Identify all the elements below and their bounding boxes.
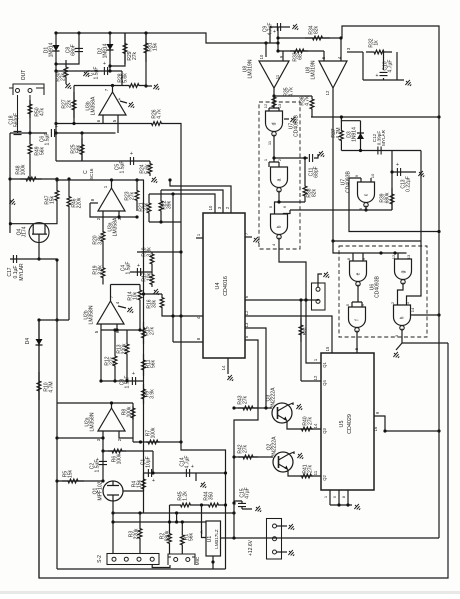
wire U2b out row [111,284,141,286]
wire R6 row [103,450,153,452]
svg-text:LM317LZ: LM317LZ [214,529,219,549]
wire R3 top [139,513,141,524]
junction [77,31,80,34]
capacitor C15 [238,503,246,506]
resistor R33 [290,49,308,53]
junction [168,520,171,523]
dashed box U6 [339,246,427,337]
wire C15 leads [234,501,252,509]
wire to bus x57 [39,258,57,260]
svg-text:13: 13 [277,103,282,108]
resistor R51 [299,318,303,342]
connector S1 [312,283,326,310]
svg-text:12: 12 [313,375,318,380]
capacitor C12 [378,147,381,155]
svg-text:15k: 15k [153,42,159,51]
svg-text:39k: 39k [167,200,173,209]
resistor R48 [20,177,42,181]
wire U2b pin stubs [101,324,117,330]
junction [390,170,393,173]
resistor R46 [67,191,71,212]
svg-text:+: + [191,464,194,470]
svg-text:1N914: 1N914 [352,127,358,142]
wire C2 stem [102,451,104,481]
resistor R14 [138,287,142,303]
junction [339,36,342,39]
svg-text:h: h [400,316,406,319]
wire U3a out row [57,179,144,181]
wire U3a bottom row [103,216,137,218]
wire R28 lead [121,71,123,86]
wire R49 lead [29,133,31,138]
wire C14 row [144,472,226,474]
svg-text:LM358A: LM358A [91,96,97,115]
junction [331,239,334,242]
wire R14 down [139,303,141,330]
capacitor C9 [277,23,280,31]
junction [55,178,58,181]
junction [115,328,118,331]
capacitor C5 [130,157,133,165]
wire U6 input bus [333,241,407,253]
junction [393,251,396,254]
wire U7a to U7b pin5 [275,191,280,214]
junction [276,49,279,52]
svg-text:15: 15 [325,346,330,351]
ground row71 [82,69,91,78]
IC U4 CD4016 [203,213,245,358]
capacitor C11 [309,154,312,162]
svg-text:LM358N: LM358N [89,305,95,324]
resistor R4 [142,477,146,491]
wire U8b pin3 [347,51,363,53]
wire R16 loop bottom [162,311,203,316]
resistor R20 [101,225,105,248]
op-amp U2a [98,408,125,431]
resistor R5 [62,479,84,483]
wire R33 row [278,50,324,52]
resistor R16 [160,294,164,311]
wire U8b pin5 [323,51,325,61]
junction [139,440,142,443]
svg-text:27k: 27k [144,202,150,211]
svg-text:1.5µF: 1.5µF [95,460,101,473]
wire U2a pin stubs [103,431,133,451]
junction [151,471,154,474]
svg-text:Q4: Q4 [322,380,327,386]
wire R25 link [81,133,83,161]
resistor R1 [180,532,184,548]
wire R14 top [139,285,141,288]
wire R36 bottom [311,112,313,117]
wire top rail left [56,33,278,43]
wire U6g to U6h [398,283,404,305]
wire row252 [137,251,181,253]
svg-text:3.9k: 3.9k [98,265,104,275]
resistor R34 [305,36,330,40]
svg-text:14: 14 [313,423,318,428]
svg-text:12: 12 [391,254,396,259]
junction [37,257,40,260]
wire row179 [10,178,57,180]
svg-text:LM319N: LM319N [248,59,254,78]
resistor R49 [28,138,32,160]
junction [437,115,440,118]
wire C1 stem [152,451,154,473]
junction [135,178,138,181]
gate U6e [350,261,367,282]
svg-text:11: 11 [275,74,280,79]
wire D3 branch [360,121,362,151]
svg-text:47k: 47k [40,107,46,116]
wire U2a out row [57,402,112,404]
wire U8a out [273,88,275,96]
svg-text:14: 14 [410,307,415,312]
wire R2 bottom [169,547,171,554]
ground C14 [199,480,208,489]
wire R36 row [274,95,312,97]
junction [272,94,275,97]
resistor R50 [28,100,32,118]
junction [304,298,307,301]
svg-text:13: 13 [244,322,249,327]
svg-text:82k: 82k [312,188,318,197]
resistor R41 [300,474,313,478]
resistor R22 [159,190,163,222]
svg-text:68pF: 68pF [314,166,320,177]
ground C9 [291,22,300,31]
svg-text:+: + [130,151,133,157]
svg-text:27k: 27k [130,191,136,200]
wire C11 row [274,157,306,159]
resistor R25 [80,138,84,161]
svg-text:27k: 27k [61,72,67,81]
svg-text:MYLAR: MYLAR [381,129,386,146]
wire C4 row [130,271,152,273]
wire R31 branch [145,33,147,86]
wire row505 anchor [169,504,171,506]
resistor R31 [144,34,148,62]
ground R24 [150,175,159,184]
wire U2b out stub [110,285,112,302]
svg-text:d: d [272,122,278,125]
svg-text:U1: U1 [207,536,213,543]
transistor Q2 2N2222A [273,452,293,472]
wire row222 [149,221,181,223]
svg-text:68pF: 68pF [71,44,77,55]
ground U7 pin7 [289,115,298,124]
svg-text:U4: U4 [215,283,221,290]
svg-text:Q3: Q3 [322,428,327,434]
wire D4 chain [38,320,40,578]
svg-text:D4: D4 [25,338,31,345]
junction [224,471,227,474]
svg-text:+12.6V: +12.6V [248,539,254,556]
wire batt gnd2 [277,551,288,553]
gate U6h [394,305,411,326]
junction [55,318,58,321]
svg-text:+: + [137,263,140,269]
junction [232,511,235,514]
junction [175,520,178,523]
gate U7a [271,167,288,187]
svg-text:10: 10 [208,205,213,210]
wire U3a out stub [111,180,113,188]
wire R4 top [143,473,145,477]
junction [101,449,104,452]
wire bus x57 [56,260,58,569]
svg-text:+: + [376,73,379,79]
junction [54,122,57,125]
svg-text:15k: 15k [137,479,143,488]
wire gnd stub R31 [146,85,152,87]
diode D1 [53,45,60,51]
svg-text:220k: 220k [77,197,83,208]
wire U3a fb [90,203,103,217]
junction [340,115,343,118]
wire R20 leads [102,217,104,261]
resistor R36 [310,96,314,112]
svg-text:U5: U5 [339,421,345,428]
svg-text:12: 12 [263,103,268,108]
ground C11 [317,149,326,158]
wire row210 [290,209,392,211]
svg-text:A: A [199,530,204,533]
svg-text:12: 12 [325,90,330,95]
svg-text:MPF102: MPF102 [98,481,104,500]
wire bus x143 [143,180,145,513]
connector MIC jack [168,554,195,565]
svg-text:CD4093B: CD4093B [375,275,381,297]
resistor R9 [142,384,146,404]
wire bus x10 [9,133,11,233]
svg-text:27k: 27k [243,395,249,404]
resistor R38 [303,180,307,202]
svg-text:56k: 56k [151,359,157,368]
wire U8b out long [332,88,334,241]
transistor Q3 2N2222A [272,403,292,423]
svg-text:4.7M: 4.7M [336,127,342,138]
wire R18-R17 [151,266,153,272]
junction [276,36,279,39]
junction [138,511,141,514]
wire R34 rail [278,37,342,39]
svg-text:1.5µF: 1.5µF [94,67,100,80]
wire C9 stems [270,27,278,51]
svg-text:27k: 27k [150,326,156,335]
wire U5 pin9 [374,416,439,431]
ground S1 [322,270,331,279]
resistor R8 [131,406,135,420]
junction [54,62,57,65]
junction [276,41,279,44]
junction [277,200,280,203]
wire U5 pin1 [306,300,321,363]
wire R49 to row179 [29,160,31,179]
junction [303,156,306,159]
op-amp U3a [98,188,125,211]
wire C3 row [100,380,144,382]
junction [175,511,178,514]
svg-text:CD4093B: CD4093B [346,170,352,192]
svg-text:56k: 56k [76,144,82,153]
svg-text:Q1: Q1 [322,362,327,368]
wire U4 pin14 [227,358,229,374]
svg-text:56k: 56k [40,146,46,155]
ground R30 [64,81,73,90]
wire U5 pin Q2 row [300,475,321,477]
transistor Q4 J174 [29,223,49,243]
wire R46 top lead [68,179,70,191]
diode D2 [107,44,114,50]
resistor R37 [340,121,344,151]
wire U1 bottom pin [212,556,214,569]
wire row133 left [10,132,47,134]
wire bottom inner left [57,568,226,570]
svg-text:4.7k: 4.7k [289,87,295,97]
wire U8b pin4 [340,38,342,61]
svg-text:15k: 15k [50,195,56,204]
junction [108,31,111,34]
junction [304,298,307,301]
wire Q2 base row [234,456,273,458]
wire U7 pin7 gnd [284,118,289,120]
svg-text:1.2k: 1.2k [183,491,189,501]
resistor R47 [55,184,59,207]
wire R38 to U7a out [279,201,305,203]
svg-text:680k: 680k [385,192,391,203]
svg-text:680k: 680k [165,530,171,541]
junction [171,192,174,195]
wire U7b out down [279,238,306,300]
wire D2 branch [109,33,111,71]
svg-text:+: + [233,502,236,508]
dashed box U7 [259,102,300,249]
op-amp U3b [99,92,126,115]
ground U6h [392,350,401,359]
junction [113,328,116,331]
svg-text:+: + [103,61,106,67]
svg-text:10: 10 [259,54,264,59]
wire U1 adj [202,505,207,538]
svg-text:14: 14 [221,365,226,370]
junction [272,156,275,159]
wire R5 row [57,480,103,482]
svg-text:12: 12 [244,310,249,315]
junction [264,406,267,409]
resistor R15 [142,322,146,344]
wire U2b pin4 stub [118,306,126,308]
junction [28,177,31,180]
wire R8 leads [112,403,134,442]
wire R1 lead [181,522,183,532]
svg-text:S-2: S-2 [97,555,103,563]
junction [55,479,58,482]
ground C10 [404,78,413,87]
wire row442 [133,441,181,443]
resistor R23 [135,180,139,211]
capacitor C3 [132,377,135,385]
svg-text:10k: 10k [133,291,139,300]
svg-text:e: e [356,272,362,275]
svg-text:CD4029: CD4029 [347,414,353,434]
wire C11 leads [306,154,318,158]
wire U4 pin10 [149,194,215,213]
junction [359,149,362,152]
junction [110,178,113,181]
wire U4 pin5 [234,340,258,503]
junction [299,298,302,301]
wire R50 branch [29,100,31,133]
svg-text:10k: 10k [147,272,153,281]
wire U6e to U6f [352,285,362,307]
wire R47 to Q4 top [10,179,57,224]
svg-text:350: 350 [209,492,215,501]
junction [264,41,267,44]
wire R38 stem [304,158,306,180]
svg-text:10µF: 10µF [146,456,152,468]
ground C13 [417,169,426,178]
wire row210 to U7b pin6 [284,210,291,214]
svg-text:56k: 56k [189,532,195,541]
wire R26 down to pin4 row [168,124,181,317]
resistor R40 [300,427,313,431]
wire R27 branch [73,86,75,124]
ground battery 1 [287,522,296,531]
wire R32C10 loop [363,52,404,80]
wire R1 bottom [181,548,183,554]
svg-text:MIC: MIC [195,556,201,565]
wire U6g inputs [397,253,399,259]
junction [108,69,111,72]
resistor R26 [145,122,168,126]
wire rail y117 [311,116,439,118]
junction [80,131,83,134]
diode D4 [36,339,43,345]
svg-text:100k: 100k [117,453,123,464]
wire row161 [56,160,150,162]
connector battery [267,519,282,560]
resistor R3 [138,524,142,543]
svg-text:27k: 27k [110,356,116,365]
svg-text:68: 68 [298,54,304,60]
wire U3a pin stubs [103,211,119,217]
wire U4 pin8 [173,341,203,343]
junction [179,250,182,253]
op-amp U2b [97,301,124,324]
resistor R18 [150,252,154,266]
junction [54,69,57,72]
junction [159,220,162,223]
junction [9,222,12,225]
junction [181,520,184,523]
gate U7d [266,111,283,132]
svg-text:10: 10 [370,173,375,178]
resistor R39 [390,188,394,210]
wire R30 leads [65,60,67,84]
junction [111,511,114,514]
wire S1 top [318,274,322,287]
wire row152 [341,150,421,152]
ground U4 pin7 [252,235,261,244]
svg-text:LM319N: LM319N [311,60,317,79]
wire R3 to S2 [139,543,141,554]
wire R1 top link [176,513,178,522]
svg-text:4.7M: 4.7M [49,381,55,392]
resistor R35 [272,96,276,108]
svg-text:82k: 82k [314,25,320,34]
wire C8 branch [56,33,79,64]
